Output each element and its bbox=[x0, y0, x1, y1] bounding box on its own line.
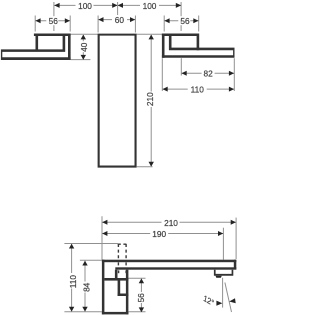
wire: 56 side top extension line bbox=[128, 277, 145, 279]
wire: centre extension line between the two 100 arrows bbox=[117, 2, 119, 16]
dimension 60: arrowheads bbox=[98, 17, 103, 22]
right handle front view: lever bar bbox=[162, 48, 235, 58]
dimension 56 right: extension lines bbox=[163, 16, 165, 32]
dimension 56 side: text rotated bbox=[136, 292, 144, 303]
dimension 110 side: arrowheads bbox=[69, 244, 74, 249]
spout outlet box at tip bbox=[214, 270, 233, 276]
dimension 56 right: dimension line bbox=[164, 20, 199, 22]
dimension 100 right: dimension line bbox=[118, 4, 182, 6]
svg-text:56: 56 bbox=[180, 16, 190, 26]
dimension 190: arrowheads bbox=[102, 231, 107, 236]
left handle front view: top bar bbox=[34, 34, 71, 37]
dimension 110 right: text bbox=[188, 84, 207, 93]
dimension 40: dimension line bbox=[82, 35, 84, 59]
svg-text:110: 110 bbox=[191, 85, 205, 95]
svg-text:40: 40 bbox=[79, 42, 89, 52]
wire: wall line between spout plate and right handle bbox=[137, 33, 165, 35]
right handle front view: inner box outline bbox=[169, 36, 199, 50]
dimension 210 side: text bbox=[162, 218, 180, 227]
dimension 210 front: dimension line bbox=[150, 35, 152, 166]
dimension 40: arrowheads bbox=[81, 35, 86, 40]
dimension 60: extension lines above spout plate bbox=[97, 16, 99, 33]
angle 12: vertical ray bbox=[222, 278, 224, 308]
wall plate side view: inner box bottom bar bbox=[118, 294, 129, 297]
dimension 56 right: text bbox=[178, 16, 190, 25]
dimension 100 left: text bbox=[76, 1, 94, 10]
dimension 110 right: arrowheads bbox=[163, 87, 168, 92]
dimension 110 side: text rotated bbox=[67, 273, 75, 289]
spout outlet nub (aerator) bbox=[216, 276, 222, 278]
dimension 100 left: left arrowhead bbox=[54, 3, 59, 8]
wall plate side view: right edge bbox=[126, 270, 128, 315]
wall plate side view: inner vertical above bar bbox=[115, 270, 118, 278]
wall plate side view: horizontal bar H1 bbox=[104, 278, 128, 281]
dimension 60: dimension line bbox=[98, 19, 135, 21]
angle 12: left arrowhead bbox=[216, 301, 222, 306]
wall plate side view: bottom edge bbox=[102, 312, 128, 315]
angle 12: right arrowhead bbox=[229, 298, 236, 303]
dimension 210 side: dimension line bbox=[102, 221, 236, 223]
left handle front view: lever bar bbox=[1, 49, 71, 60]
dimension 84: text rotated bbox=[82, 282, 90, 293]
dimension 56 right: arrowheads bbox=[164, 18, 169, 23]
left handle front view: outer right edge bbox=[68, 34, 71, 60]
wire: extension line below left handle bottom bbox=[71, 59, 91, 61]
dimension 56 left: text bbox=[46, 16, 58, 25]
dimension 110 side: dimension line bbox=[71, 244, 73, 311]
spout tube side view: bottom edge bbox=[115, 267, 236, 269]
dimension 210 side: arrowheads bbox=[102, 220, 107, 225]
svg-text:210: 210 bbox=[145, 92, 155, 106]
dimension 82: dimension line bbox=[181, 72, 234, 74]
wall plate side view: inner vertical below bar bbox=[118, 280, 121, 296]
wire: extension line top (110 top, to dashed box) bbox=[64, 243, 118, 245]
angle 12: slanted ray bbox=[225, 283, 232, 313]
dimension 110 right: dimension line bbox=[162, 88, 234, 90]
dimension 82: extension lines bbox=[180, 58, 182, 75]
dimension 56 left: extension lines bbox=[34, 16, 36, 32]
svg-text:210: 210 bbox=[164, 218, 178, 228]
dimension 56 side: arrowheads bbox=[139, 279, 144, 284]
dimension 84: arrowheads bbox=[82, 261, 87, 266]
dimension 100 right: right arrowhead bbox=[176, 3, 181, 8]
dimension 110 right: extension line bbox=[161, 58, 163, 91]
spout plate front view: rectangle 60x210 bbox=[98, 34, 137, 168]
wire: bottom extension line right of plate bbox=[128, 311, 145, 313]
dimension 100 right: text bbox=[140, 1, 159, 10]
left handle front view: inner box outline bbox=[35, 36, 65, 52]
wire: bottom extension line left of plate bbox=[64, 311, 102, 313]
right handle front view: outer left edge bbox=[162, 34, 165, 58]
dimension 100 right: extension line bbox=[180, 2, 182, 31]
svg-text:82: 82 bbox=[203, 69, 213, 79]
dimension 100 left: extension line bbox=[53, 2, 55, 31]
svg-text:60: 60 bbox=[115, 15, 125, 25]
svg-text:56: 56 bbox=[136, 293, 146, 303]
dimension 190: dimension line bbox=[102, 233, 223, 235]
spout tube side view: top edge bbox=[102, 260, 236, 263]
concealed connector: dashed box above spout bbox=[118, 244, 127, 260]
wall plate side view: left edge bbox=[102, 260, 105, 315]
dimension 190: extension line right bbox=[222, 228, 224, 260]
dimension 60: text bbox=[112, 15, 127, 24]
dimension 210 side: extension lines bbox=[101, 216, 103, 260]
dimension 210 front: arrowheads bbox=[149, 35, 154, 40]
wire: wall line between left handle and spout plate bbox=[71, 33, 98, 35]
dimension 100 left: dimension line bbox=[54, 4, 117, 6]
dimension 210 front: text rotated bbox=[147, 92, 155, 108]
wire: extension line for 84 top bbox=[80, 259, 102, 261]
dimension 82: arrowheads bbox=[182, 71, 187, 76]
svg-text:110: 110 bbox=[68, 275, 78, 289]
concealed connector: hidden dashes inside spout tube bbox=[118, 262, 126, 273]
svg-text:190: 190 bbox=[152, 229, 166, 239]
wire: extension line at spout plate bottom right bbox=[137, 166, 153, 168]
dimension 100 left: right arrowhead at centre bbox=[112, 3, 117, 8]
right handle front view: top bar bbox=[162, 34, 199, 37]
dimension 56 side: dimension line bbox=[140, 279, 142, 312]
dimension 100 right: left arrowhead at centre bbox=[118, 3, 123, 8]
svg-text:100: 100 bbox=[143, 1, 157, 11]
dimension 82: text bbox=[202, 68, 215, 77]
spout tube side view: right end cap bbox=[234, 260, 237, 270]
svg-text:100: 100 bbox=[78, 1, 92, 11]
dimension 40: text rotated bbox=[80, 41, 88, 52]
svg-text:56: 56 bbox=[49, 16, 59, 26]
svg-text:84: 84 bbox=[82, 282, 92, 292]
dimension 190: text bbox=[150, 229, 168, 238]
dimension 84: dimension line bbox=[84, 261, 86, 312]
dimension 56 left: arrowheads bbox=[35, 18, 40, 23]
dimension 56 left: dimension line bbox=[35, 20, 70, 22]
